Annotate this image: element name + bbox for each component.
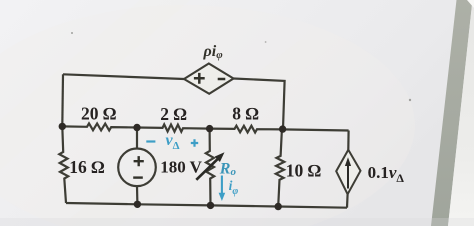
wire: corner E down to U2 top tip	[347, 131, 350, 150]
wire: node B down to V1 top	[136, 128, 138, 149]
junction node bottom-1	[134, 201, 141, 208]
arrow i_phi shaft (blue, down)	[221, 176, 223, 195]
speck	[409, 99, 411, 101]
voltage source V1 180V (circle)	[118, 149, 156, 187]
label + inside V1	[134, 156, 144, 166]
svg-text:16 Ω: 16 Ω	[69, 157, 104, 177]
junction node A	[59, 123, 66, 130]
resistor R=20ohm	[62, 123, 137, 130]
arrowhead inside U2	[345, 157, 351, 166]
wire: V1 bottom to bottom rail	[136, 186, 139, 204]
arrowhead of Ro arrow	[215, 152, 225, 162]
speck	[71, 32, 73, 34]
resistor R=8ohm	[210, 126, 282, 133]
svg-text:10 Ω: 10 Ω	[286, 161, 321, 181]
variable resistor Ro	[206, 129, 214, 206]
junction node D	[279, 125, 286, 132]
label - inside U1	[218, 78, 226, 81]
svg-text:8 Ω: 8 Ω	[232, 103, 259, 123]
svg-text:20 Ω: 20 Ω	[81, 104, 116, 124]
dependent current source U2 0.1v_delta (diamond)	[336, 150, 360, 194]
label + inside U1	[194, 73, 205, 84]
junction node bottom-3	[275, 203, 282, 210]
arrowhead i_phi (blue)	[219, 193, 226, 201]
junction node B	[133, 124, 140, 131]
label - (minus) of v_delta polarity (blue)	[146, 140, 155, 142]
wire: U2 bottom tip to bottom-right corner	[346, 194, 349, 208]
wire: top rail to dependent source	[63, 74, 184, 79]
resistor R=10ohm	[276, 129, 285, 206]
dependent voltage source U1 rho*i_phi (diamond)	[184, 64, 234, 94]
junction node C	[206, 125, 213, 132]
junction node bottom-2	[207, 202, 214, 209]
resistor R=16ohm (left branch)	[59, 126, 68, 203]
wire: bottom rail	[66, 203, 347, 208]
label + of v_delta polarity (blue)	[191, 139, 198, 146]
arrow across Ro (variable resistor)	[196, 159, 217, 180]
wire: left vertical top (corner to node A)	[61, 74, 64, 126]
speck	[265, 41, 267, 43]
resistor R=2ohm	[137, 124, 210, 131]
soft bottom shade	[0, 218, 474, 226]
label - inside V1	[133, 176, 143, 178]
gray slanted band (right, screen edge)	[431, 0, 473, 226]
svg-text:2 Ω: 2 Ω	[160, 104, 187, 124]
wire: U1 right tip to top-right corner, down to node D	[234, 79, 285, 129]
wire: node D to right corner E	[282, 129, 349, 130]
svg-text:180 V: 180 V	[160, 157, 202, 176]
arrow shaft inside U2 (up)	[347, 165, 349, 189]
